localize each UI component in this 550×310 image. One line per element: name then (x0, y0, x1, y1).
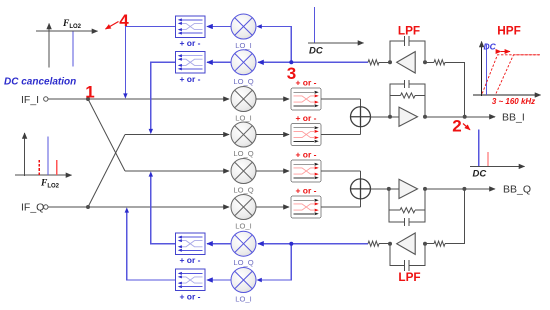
wire bottom node to mixer LO_Q row G (258, 243, 291, 245)
swap box row B (176, 52, 206, 74)
mixer LO_I row C (231, 87, 256, 112)
swap box row G (176, 233, 206, 255)
wire BB_I node up to LPF (445, 62, 465, 116)
wire LPF output to node 3 (291, 61, 368, 63)
wire mixer row F to sign box (256, 206, 289, 208)
wire mixer row E to sign box (256, 170, 289, 172)
wire adder to amp BB_I (371, 116, 400, 118)
spectrum S2 vertical axis (24, 133, 26, 176)
svg-text:DC: DC (484, 42, 497, 52)
callout 2 arrow (463, 124, 470, 130)
feedback capacitor branch BB_I (390, 84, 404, 117)
HPF horizontal axis (473, 94, 541, 96)
wire row F into adder (360, 199, 362, 207)
wire resistor left stub (379, 61, 390, 63)
svg-text:+ or -: + or - (295, 150, 316, 160)
node amp BB_I output (423, 115, 427, 119)
wire row D into adder (360, 127, 362, 135)
svg-text:DC: DC (309, 46, 323, 57)
wire IF_I to mixer LO_I row C (88, 98, 229, 100)
spectrum S2 horizontal axis (15, 174, 72, 176)
wire IF_Q to mixer LO_I row F (88, 206, 229, 208)
spectrum S2 red spike (56, 160, 58, 175)
spectrum S1 horizontal axis (36, 30, 98, 32)
spectrum S3 DC spike (313, 7, 315, 43)
wire IF_I to node 1 (48, 98, 88, 100)
svg-text:LPF: LPF (398, 24, 420, 38)
svg-text:LPF: LPF (398, 270, 420, 284)
mixer LO_I row H (231, 268, 256, 293)
mixer LO_Q row D (231, 122, 256, 147)
node amp BB_I input (388, 115, 392, 119)
wire sign box row D output (321, 134, 361, 136)
wire bottom node down to row H (258, 244, 291, 280)
resistor LPF top right (434, 60, 445, 65)
wire bottom LPF output to bottom node (291, 243, 368, 245)
wire adder to amp BB_Q (371, 188, 400, 190)
spectrum S4 red spike (487, 152, 489, 166)
node 1 junction (86, 97, 90, 101)
svg-text:IF_I: IF_I (21, 94, 39, 106)
svg-text:LO_I: LO_I (235, 222, 251, 231)
node 3 junction (289, 60, 293, 64)
wire row D horizontal to mixer (125, 134, 229, 136)
swap box row H (176, 269, 206, 291)
svg-text:DC: DC (473, 169, 487, 180)
resistor LPF bottom left (368, 241, 379, 246)
svg-text:LO_I: LO_I (235, 41, 251, 50)
wire diagonal IF_Q to row D (88, 135, 125, 208)
node BB_I output junction (463, 115, 467, 119)
node LPF top amp input (423, 60, 427, 64)
wire BB_Q node down to LPF (445, 189, 464, 244)
svg-text:+ or -: + or - (179, 74, 200, 84)
HPF dashed highpass curve 1 (482, 55, 540, 94)
op-amp LPF top (397, 52, 416, 73)
svg-text:+ or -: + or - (295, 113, 316, 123)
terminal IF_Q (44, 205, 48, 209)
svg-text:+ or -: + or - (179, 292, 200, 302)
spectrum S2 red dashed spike (38, 159, 40, 175)
wire resistor to amp input (425, 61, 434, 63)
feedback capacitor LPF top (390, 41, 404, 62)
svg-text:BB_Q: BB_Q (503, 184, 531, 196)
feedback capacitor branch BB_Q (389, 189, 405, 222)
wire mixer row D to sign box (256, 134, 289, 136)
svg-text:+ or -: + or - (179, 38, 200, 48)
svg-text:LO_I: LO_I (235, 114, 251, 123)
HPF tuning range double arrow (501, 51, 510, 53)
spectrum S1 vertical axis (48, 24, 50, 68)
svg-text:3 ~ 160 kHz: 3 ~ 160 kHz (492, 97, 535, 106)
wire node 3 up to row A (258, 27, 291, 63)
spectrum S4 DC spike (478, 130, 480, 167)
wire mixer row C to sign box (256, 98, 289, 100)
feedback capacitor LPF bottom (390, 244, 404, 266)
svg-text:LO_I: LO_I (235, 295, 251, 304)
wire amp BB_Q to output node (425, 188, 464, 190)
spectrum S3 axis (308, 42, 364, 44)
svg-text:HPF: HPF (497, 24, 521, 38)
wire amp BB_I to output node (425, 116, 465, 118)
wire node 3 to mixer LO_Q row B (258, 61, 291, 63)
wire row E horizontal to mixer (125, 170, 229, 172)
sign box row D (291, 124, 321, 146)
svg-text:+ or -: + or - (179, 255, 200, 265)
wire swap box A output to node 1 injection (125, 27, 175, 97)
op-amp BB_Q (399, 179, 418, 198)
node amp BB_Q output (423, 187, 427, 191)
svg-text:+ or -: + or - (295, 186, 316, 196)
HPF vertical axis (481, 42, 483, 97)
spectrum S2 blue spike F_LO2 (47, 137, 49, 175)
adder BB_Q (351, 179, 371, 199)
mixer LO_Q row E (231, 159, 256, 184)
sign box row C (291, 88, 321, 110)
resistor LPF top left (368, 60, 379, 65)
wire mixer row G to swap box (207, 243, 231, 245)
node IF_Q junction (86, 205, 90, 209)
HPF DC spike (486, 45, 488, 95)
arrow BB_I output (465, 116, 495, 118)
wire resistor to amp input bottom (425, 243, 434, 245)
bottom node junction (289, 242, 293, 246)
node LPF bottom amp output (388, 242, 392, 246)
mixer LO_I row F (231, 195, 256, 220)
op-amp BB_I (399, 107, 418, 126)
sign box row F (291, 196, 321, 218)
callout 4 arrow (106, 22, 119, 30)
adder BB_I (351, 107, 371, 127)
svg-text:LO_Q: LO_Q (233, 186, 253, 195)
wire IF_Q to node (48, 206, 88, 208)
spectrum S4 axis (470, 165, 525, 167)
svg-text:4: 4 (119, 11, 129, 30)
wire swap box B output to row D injection (151, 62, 176, 132)
wire sign box row E output (321, 170, 361, 172)
wire mixer row B to swap box (207, 61, 231, 63)
wire diagonal IF_I to row E (88, 99, 125, 171)
mixer LO_Q row B (231, 50, 256, 75)
node BB_Q output junction (462, 187, 466, 191)
svg-text:LO_Q: LO_Q (233, 149, 253, 158)
sign box row E (291, 160, 321, 182)
wire row E into adder (360, 171, 362, 179)
terminal IF_I (44, 97, 48, 101)
mixer LO_Q row G (231, 231, 256, 256)
wire row C into adder (360, 99, 362, 107)
svg-text:IF_Q: IF_Q (21, 202, 44, 214)
feedback resistor branch BB_I (390, 95, 401, 97)
svg-text:LO_Q: LO_Q (233, 77, 253, 86)
spectrum S1 F_LO2 spike (72, 32, 74, 67)
op-amp LPF bottom (397, 233, 416, 254)
wire mixer row A to swap box (207, 26, 231, 28)
node LPF bottom amp input (423, 242, 427, 246)
svg-text:+ or -: + or - (295, 78, 316, 88)
node amp BB_Q input (387, 187, 391, 191)
wire mixer row H to swap box (207, 279, 231, 281)
svg-text:2: 2 (452, 117, 461, 136)
feedback resistor branch BB_Q (389, 209, 400, 211)
arrow BB_Q output (464, 188, 495, 190)
svg-text:BB_I: BB_I (502, 112, 525, 124)
wire swap box H output to row F injection (127, 210, 176, 281)
svg-text:DC cancelation: DC cancelation (4, 77, 76, 88)
swap box row A (176, 16, 206, 38)
svg-text:LO_Q: LO_Q (233, 258, 253, 267)
mixer LO_I row A (231, 14, 256, 39)
HPF dashed highpass curve 2 (496, 55, 540, 94)
resistor LPF bottom right (434, 241, 445, 246)
wire sign box row F output (321, 206, 361, 208)
wire sign box row C output (321, 98, 361, 100)
wire resistor left stub bottom (379, 243, 390, 245)
node LPF top amp output (388, 60, 392, 64)
wire swap box G output to row E injection (151, 174, 176, 244)
